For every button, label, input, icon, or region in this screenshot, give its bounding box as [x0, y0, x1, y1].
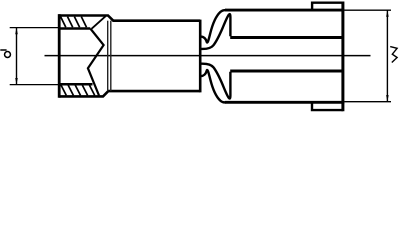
dimension w line	[386, 10, 388, 102]
receptacle front face	[341, 2, 344, 112]
dimension w extension bottom	[345, 101, 392, 103]
hatch top wall	[61, 17, 87, 28]
centerline	[45, 55, 371, 57]
barrel step verticals	[107, 21, 109, 91]
dimension w extension top	[345, 9, 392, 11]
insulation sleeve end face	[199, 20, 202, 93]
dimension d line	[16, 28, 18, 85]
dimension d extension top	[10, 27, 58, 29]
hatch bottom wall	[61, 85, 95, 95]
receptacle top edge	[225, 9, 344, 12]
funnel zigzag	[88, 29, 104, 96]
insulation sleeve outer profile bottom	[59, 91, 200, 96]
top detent bump	[312, 3, 343, 10]
receptacle inner line lower	[230, 70, 342, 73]
insulation sleeve outer profile top	[59, 16, 200, 21]
transition outer top curve	[201, 10, 227, 42]
dimension w arrows	[386, 10, 389, 101]
label w (rotated)	[390, 47, 397, 63]
transition inner bottom curve	[201, 64, 231, 99]
top wall cut boundary	[92, 16, 106, 28]
sleeve inner wall top edge	[59, 27, 90, 30]
sleeve inner wall bottom edge	[59, 83, 92, 86]
transition inner top curve	[201, 14, 231, 49]
dimension d arrows	[15, 28, 18, 85]
bottom detent bump	[312, 102, 343, 110]
receptacle inner line upper	[230, 36, 342, 39]
insulation sleeve left edge	[58, 14, 61, 98]
dimension d extension bottom	[10, 84, 58, 86]
label d (rotated)	[0, 50, 10, 57]
receptacle bottom edge	[225, 101, 344, 104]
transition outer bottom curve	[201, 70, 227, 102]
